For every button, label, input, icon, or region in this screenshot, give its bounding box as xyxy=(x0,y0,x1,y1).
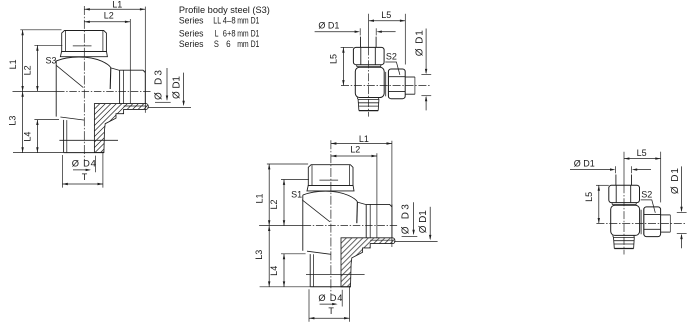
vertical centerline (elbow 1) xyxy=(83,6,85,161)
body to stud taper (elbow 1) xyxy=(60,117,84,120)
svg-text:Ø D1: Ø D1 xyxy=(171,76,182,99)
svg-text:Ø D4: Ø D4 xyxy=(72,159,96,169)
svg-text:L5: L5 xyxy=(329,54,339,64)
svg-text:L4: L4 xyxy=(269,266,279,276)
svg-text:LL: LL xyxy=(213,16,221,27)
extension line L1 right (elbow 2) xyxy=(391,141,393,247)
svg-text:Series: Series xyxy=(179,39,204,50)
svg-text:mm D1: mm D1 xyxy=(237,28,259,39)
thread depth line (elbow 1) xyxy=(59,139,118,141)
bottom stud (elbow 1) xyxy=(63,120,65,153)
svg-text:L: L xyxy=(215,28,219,39)
svg-text:L5: L5 xyxy=(637,148,647,158)
thread line in stud (elbow 2) xyxy=(319,179,338,181)
extension line stud top (elbow 1) xyxy=(20,29,61,31)
thread depth line (elbow 2) xyxy=(306,274,365,276)
side centerline (banjo 2) xyxy=(596,222,686,224)
svg-text:S2: S2 xyxy=(641,190,652,200)
body left edge (elbow 2) xyxy=(302,195,304,251)
svg-text:S3: S3 xyxy=(45,55,56,65)
svg-text:Ø D4: Ø D4 xyxy=(318,293,342,303)
top nut (banjo 1) xyxy=(353,47,384,64)
washer under nut (banjo 1) xyxy=(357,65,381,67)
svg-text:L5: L5 xyxy=(381,10,391,20)
washer line under port (elbow 1) xyxy=(124,105,147,107)
svg-text:L2: L2 xyxy=(104,11,114,21)
svg-text:Ø D3: Ø D3 xyxy=(400,204,411,234)
svg-text:T: T xyxy=(82,172,88,182)
svg-text:Series: Series xyxy=(179,28,204,39)
banjo body (banjo 1) xyxy=(355,67,384,97)
extension line thread relief (elbow 1) xyxy=(34,44,62,46)
tube stub (banjo 2) xyxy=(661,214,671,216)
svg-text:L1: L1 xyxy=(254,193,264,203)
vertical centerline (banjo 2) xyxy=(623,185,625,254)
tube centerline (banjo 1) xyxy=(368,14,370,48)
horizontal centerline (elbow 1) xyxy=(13,90,58,92)
port face (elbow 2) xyxy=(365,205,367,238)
top nut (banjo 2) xyxy=(609,185,640,202)
extension line thread relief (elbow 2) xyxy=(281,179,309,181)
svg-text:Ø D3: Ø D3 xyxy=(154,70,165,100)
collar (elbow 1) xyxy=(60,51,107,56)
collar (elbow 2) xyxy=(307,186,354,191)
banjo body (banjo 2) xyxy=(611,205,640,235)
body taper edge (elbow 2) xyxy=(356,202,359,223)
bottom stud (elbow 2) xyxy=(309,254,311,287)
side port (elbow 2) xyxy=(366,204,392,206)
svg-text:Ø D1: Ø D1 xyxy=(574,158,595,168)
body taper edge (elbow 1) xyxy=(109,68,112,89)
svg-text:L5: L5 xyxy=(584,192,594,202)
horizontal centerline (elbow 2) xyxy=(259,225,304,227)
side centerline (banjo 1) xyxy=(341,85,431,87)
hatched cross-section (elbow 2) xyxy=(341,238,395,287)
svg-text:Ø D1: Ø D1 xyxy=(418,210,429,233)
bottom stud (banjo 1) xyxy=(357,98,379,111)
tube stub (banjo 1) xyxy=(405,76,415,78)
extension line L4 top (elbow 1) xyxy=(34,119,59,121)
svg-text:L1: L1 xyxy=(112,0,122,10)
svg-text:L1: L1 xyxy=(8,59,18,69)
series text block xyxy=(179,5,270,50)
extension line stud top (elbow 2) xyxy=(267,163,308,165)
svg-text:L3: L3 xyxy=(7,116,17,126)
washer under nut (banjo 2) xyxy=(612,203,636,205)
svg-text:L2: L2 xyxy=(269,199,279,209)
side washer (banjo 1) xyxy=(385,72,387,96)
svg-text:L2: L2 xyxy=(23,65,33,75)
extension line L2 right (elbow 2) xyxy=(376,153,378,238)
bottom stud (banjo 2) xyxy=(613,235,635,248)
top stud (elbow 2) xyxy=(308,165,353,186)
extension line L1 right (elbow 1) xyxy=(144,7,146,113)
top stud thread lines (elbow 1) xyxy=(64,31,66,52)
svg-text:4–8: 4–8 xyxy=(223,16,236,27)
svg-text:L1: L1 xyxy=(359,134,369,144)
body left edge (elbow 1) xyxy=(55,61,57,117)
body dome (elbow 1) xyxy=(56,57,111,68)
extension line L4 top (elbow 2) xyxy=(281,253,306,255)
elbow fitting section view, bottom-middle xyxy=(254,134,438,322)
tube centerline (banjo 2) xyxy=(623,152,625,186)
side nut (banjo 2) xyxy=(644,207,661,237)
banjo elbow view, top-right xyxy=(315,10,432,116)
svg-text:L3: L3 xyxy=(254,250,264,260)
svg-text:Series: Series xyxy=(179,16,204,27)
washer line under port (elbow 2) xyxy=(370,239,393,241)
svg-text:S2: S2 xyxy=(386,52,397,62)
svg-text:L2: L2 xyxy=(350,145,360,155)
port face (elbow 1) xyxy=(119,70,121,103)
svg-text:Profile body steel (S3): Profile body steel (S3) xyxy=(179,5,270,16)
top stud thread lines (elbow 2) xyxy=(311,165,313,186)
top stud (elbow 1) xyxy=(62,31,107,52)
elbow fitting section view, top-left xyxy=(7,0,191,188)
thread line in stud (elbow 1) xyxy=(73,45,92,47)
tube (banjo 2) xyxy=(615,175,617,186)
body dome (elbow 2) xyxy=(303,191,358,202)
extension line L5 right (banjo 2) xyxy=(660,152,662,203)
svg-text:Ø D1: Ø D1 xyxy=(318,20,339,30)
svg-text:6+8: 6+8 xyxy=(223,28,236,39)
svg-text:Ø D1: Ø D1 xyxy=(415,30,426,56)
svg-text:T: T xyxy=(328,306,334,316)
tube (banjo 1) xyxy=(360,37,362,48)
extension line L2 right (elbow 1) xyxy=(129,19,131,104)
side port (elbow 1) xyxy=(120,70,146,72)
extension line bottom (elbow 1) xyxy=(13,152,63,154)
svg-text:L4: L4 xyxy=(23,132,33,142)
svg-text:mm D1: mm D1 xyxy=(237,39,259,50)
side washer (banjo 2) xyxy=(640,210,642,234)
banjo elbow view, bottom-right xyxy=(570,148,687,254)
svg-text:mm D1: mm D1 xyxy=(237,16,259,27)
svg-text:S1: S1 xyxy=(291,190,302,200)
svg-text:S: S xyxy=(214,39,219,50)
extension line bottom (elbow 2) xyxy=(260,286,310,288)
svg-text:Ø D1: Ø D1 xyxy=(670,168,681,194)
side nut (banjo 1) xyxy=(388,69,405,99)
vertical centerline (banjo 1) xyxy=(368,47,370,116)
body to stud taper (elbow 2) xyxy=(307,251,331,254)
svg-text:6: 6 xyxy=(226,39,231,50)
vertical centerline (elbow 2) xyxy=(330,140,332,295)
hatched cross-section (elbow 1) xyxy=(94,104,148,153)
extension line L5 right (banjo 1) xyxy=(404,14,406,65)
